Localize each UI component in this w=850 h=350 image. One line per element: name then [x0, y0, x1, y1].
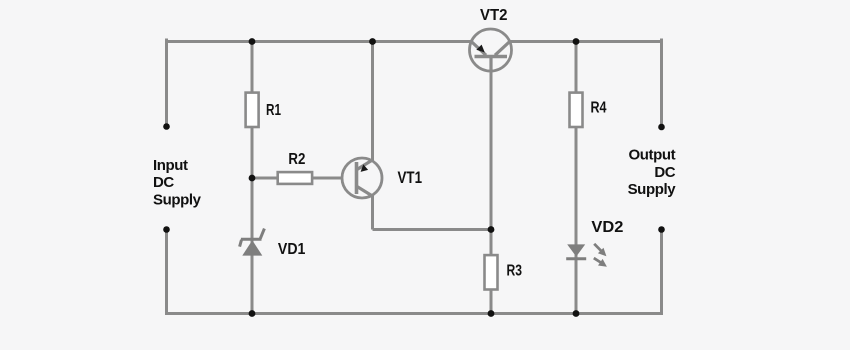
wire right vertical lower: [660, 230, 663, 316]
LED emission arrow upper: [594, 244, 606, 256]
junction node emitter-R3: [488, 226, 495, 233]
zener diode VD1: [240, 229, 306, 258]
svg-text:VD1: VD1: [278, 241, 306, 258]
wire bottom rail: [165, 312, 663, 315]
wire R2 base branch: [252, 177, 362, 180]
junction node bottom rail x576: [573, 310, 580, 317]
wire left vertical lower: [165, 230, 168, 316]
wire right vertical upper: [660, 39, 663, 128]
transistor VT2: [470, 7, 512, 71]
svg-text:Output: Output: [628, 147, 675, 164]
terminal input minus: [163, 226, 170, 233]
svg-text:R1: R1: [266, 102, 281, 119]
junction node bottom rail x491: [488, 310, 495, 317]
wire R4 VD2 branch: [575, 42, 578, 314]
wire top rail: [167, 40, 662, 43]
junction node top rail x372.5: [369, 38, 376, 45]
LED emission arrow lower: [594, 258, 607, 267]
resistor R3: [485, 255, 523, 289]
svg-text:Input: Input: [153, 157, 188, 174]
resistor R1: [246, 93, 282, 127]
svg-text:VT2: VT2: [480, 7, 508, 24]
svg-text:VD2: VD2: [591, 219, 623, 236]
transistor VT1: [342, 158, 422, 198]
junction node R1-R2-VD1: [249, 175, 256, 182]
LED VD2: [566, 219, 623, 267]
label Output DC Supply: [628, 147, 677, 199]
svg-text:Supply: Supply: [153, 191, 202, 208]
svg-text:DC: DC: [654, 164, 675, 181]
svg-text:R3: R3: [507, 263, 523, 280]
resistor R4: [570, 93, 607, 127]
svg-text:R2: R2: [288, 151, 305, 168]
junction node bottom rail x252: [249, 310, 256, 317]
svg-text:Supply: Supply: [628, 181, 677, 198]
label Input DC Supply: [153, 157, 202, 209]
junction node top rail x576: [573, 38, 580, 45]
resistor R2: [278, 151, 312, 184]
terminal output plus: [658, 124, 665, 131]
wire R1 VD1 branch: [251, 42, 254, 314]
wire VT2 base to R3 branch: [490, 50, 493, 314]
svg-text:R4: R4: [591, 100, 607, 117]
wire VT1 emitter horizontal: [373, 228, 492, 231]
svg-text:DC: DC: [153, 174, 174, 191]
wire VT1 collector-emitter vertical: [371, 42, 374, 230]
terminal input plus: [163, 123, 170, 130]
wire left vertical upper: [165, 39, 168, 127]
junction node top rail x252: [249, 38, 256, 45]
terminal output minus: [658, 226, 665, 233]
svg-text:VT1: VT1: [398, 169, 423, 187]
